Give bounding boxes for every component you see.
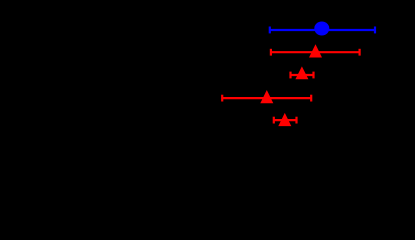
right cap row5	[295, 117, 297, 124]
marker triangle row5 (red)	[278, 113, 291, 126]
horizontal error bar row4	[222, 97, 311, 99]
errorbar row 4 (red series)	[222, 95, 311, 102]
left cap row2	[270, 49, 272, 56]
marker triangle row2 (red)	[309, 44, 322, 57]
right cap row1	[374, 27, 376, 34]
left cap row5	[273, 117, 275, 124]
left cap row3	[289, 72, 291, 79]
left cap row4	[221, 95, 223, 102]
horizontal error bar row2	[271, 51, 360, 53]
marker circle row1 (blue)	[314, 22, 329, 36]
errorbar row 5 (red series)	[274, 117, 297, 124]
horizontal error bar row5	[274, 119, 297, 121]
horizontal error bar row1	[270, 29, 375, 31]
right cap row3	[312, 72, 314, 79]
right cap row4	[310, 95, 312, 102]
errorbar row 3 (red series)	[291, 72, 314, 79]
marker triangle row4 (red)	[260, 90, 273, 103]
errorbar row 1 (blue series)	[270, 27, 375, 34]
errorbar row 2 (red series)	[271, 49, 360, 56]
marker triangle row3 (red)	[295, 66, 308, 79]
left cap row1	[269, 27, 271, 34]
horizontal error bar row3	[291, 74, 314, 76]
right cap row2	[359, 49, 361, 56]
